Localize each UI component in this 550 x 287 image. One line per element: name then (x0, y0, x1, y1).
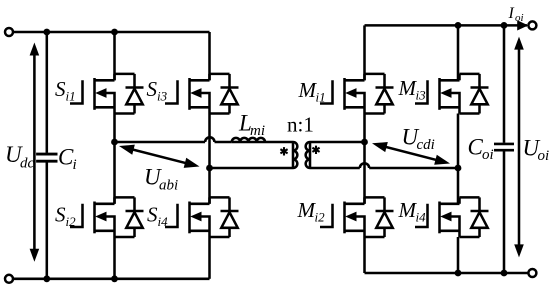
svg-text:cdi: cdi (417, 137, 435, 153)
svg-text:i2: i2 (66, 214, 77, 229)
svg-text:I: I (508, 5, 515, 22)
svg-text:abi: abi (159, 178, 178, 194)
svg-text:i1: i1 (66, 89, 76, 104)
svg-text:S: S (147, 203, 158, 227)
svg-text:i2: i2 (315, 210, 326, 225)
svg-text:oi: oi (538, 148, 550, 164)
svg-text:i3: i3 (157, 89, 168, 104)
svg-text:mi: mi (250, 123, 265, 139)
svg-text:M: M (398, 76, 418, 100)
svg-text:oi: oi (515, 12, 524, 24)
svg-text:i1: i1 (316, 90, 326, 105)
svg-text:M: M (297, 198, 317, 222)
svg-text:n:1: n:1 (287, 113, 314, 137)
svg-text:M: M (398, 198, 418, 222)
svg-text:S: S (55, 77, 66, 101)
svg-text:M: M (298, 78, 318, 102)
svg-text:S: S (55, 203, 66, 227)
svg-text:i4: i4 (416, 210, 427, 225)
svg-text:i3: i3 (416, 88, 427, 103)
svg-text:i4: i4 (158, 214, 169, 229)
svg-text:S: S (147, 77, 158, 101)
svg-text:i: i (73, 157, 77, 173)
svg-text:oi: oi (482, 147, 494, 163)
svg-text:dc: dc (20, 156, 35, 172)
